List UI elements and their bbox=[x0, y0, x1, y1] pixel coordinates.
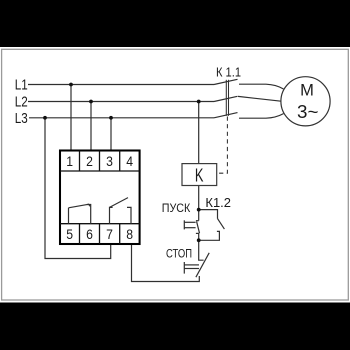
svg-text:1: 1 bbox=[66, 153, 73, 169]
svg-text:6: 6 bbox=[86, 226, 93, 242]
svg-text:L3: L3 bbox=[15, 110, 28, 127]
svg-text:ПУСК: ПУСК bbox=[162, 203, 191, 215]
svg-text:СТОП: СТОП bbox=[166, 249, 192, 261]
svg-text:2: 2 bbox=[86, 153, 93, 169]
svg-text:К 1.1: К 1.1 bbox=[216, 65, 241, 79]
svg-text:L1: L1 bbox=[15, 77, 28, 94]
svg-text:K: K bbox=[195, 165, 204, 185]
svg-text:8: 8 bbox=[126, 226, 133, 242]
svg-text:К1.2: К1.2 bbox=[205, 196, 231, 210]
svg-text:L2: L2 bbox=[15, 94, 28, 111]
svg-text:M: M bbox=[300, 81, 314, 99]
svg-text:3~: 3~ bbox=[297, 101, 318, 122]
svg-text:5: 5 bbox=[66, 226, 73, 242]
svg-text:4: 4 bbox=[126, 153, 133, 169]
svg-text:3: 3 bbox=[106, 153, 113, 169]
svg-text:7: 7 bbox=[106, 226, 113, 242]
